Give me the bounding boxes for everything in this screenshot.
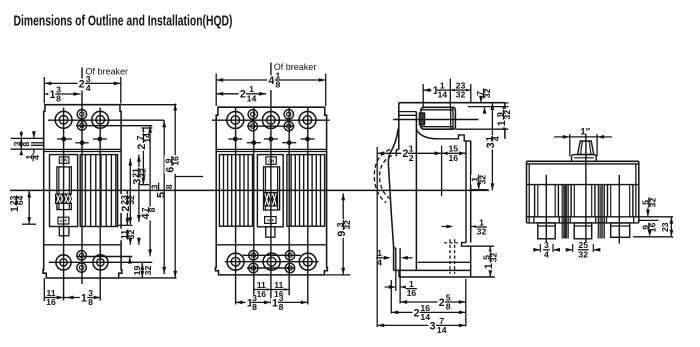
svg-text:2: 2 [439,297,445,309]
svg-text:2: 2 [409,153,414,163]
svg-text:6: 6 [165,167,177,173]
svg-text:3: 3 [132,179,144,185]
svg-text:8: 8 [252,302,257,312]
svg-text:14: 14 [247,93,257,103]
svg-text:Of breaker: Of breaker [86,67,129,77]
svg-text:16: 16 [256,289,266,299]
svg-text:32: 32 [477,227,487,237]
svg-text:5: 5 [155,192,167,198]
svg-text:Dimensions of Outline and Inst: Dimensions of Outline and Installation(H… [14,14,233,30]
svg-text:16: 16 [46,297,56,307]
svg-text:19: 19 [132,266,142,276]
svg-text:16: 16 [407,288,417,298]
svg-text:32: 32 [143,266,153,276]
svg-text:4: 4 [140,213,152,219]
svg-text:3: 3 [149,184,159,189]
svg-text:4: 4 [544,249,549,259]
svg-text:23: 23 [660,222,670,232]
svg-text:1: 1 [9,206,21,212]
svg-text:2: 2 [403,148,409,160]
svg-text:1: 1 [483,263,495,269]
svg-text:3: 3 [430,320,436,332]
svg-text:1: 1 [81,292,87,304]
svg-text:4: 4 [31,155,41,160]
svg-text:1: 1 [272,297,278,309]
svg-text:2: 2 [136,144,148,150]
svg-text:4: 4 [86,83,91,93]
svg-text:3: 3 [485,142,497,148]
svg-text:32: 32 [456,90,466,100]
svg-text:32: 32 [578,249,588,259]
svg-text:8: 8 [88,297,93,307]
svg-text:2: 2 [79,78,85,90]
svg-text:4: 4 [268,75,274,87]
svg-text:16: 16 [448,153,458,163]
svg-text:4: 4 [377,257,382,267]
svg-text:2: 2 [414,307,420,319]
svg-text:14: 14 [437,90,447,100]
svg-text:8: 8 [446,302,451,312]
svg-text:8: 8 [279,302,284,312]
svg-text:9: 9 [336,231,348,237]
svg-text:2: 2 [240,89,246,101]
svg-text:1: 1 [496,120,508,126]
svg-text:8: 8 [275,80,280,90]
svg-text:Of breaker: Of breaker [274,62,317,72]
svg-text:8: 8 [164,184,174,189]
svg-text:1: 1 [50,89,56,101]
svg-text:14: 14 [437,325,447,335]
svg-text:8: 8 [56,94,61,104]
